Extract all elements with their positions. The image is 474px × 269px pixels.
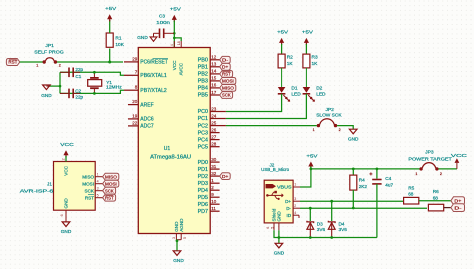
- svg-text:PD0: PD0: [198, 160, 209, 166]
- ground (J1): [61, 222, 72, 234]
- capacitor C4 4u7: [369, 169, 393, 238]
- svg-text:5: 5: [183, 237, 187, 239]
- wire D2 to PC1: [226, 94, 307, 119]
- svg-text:VCC: VCC: [60, 142, 74, 148]
- svg-text:3V6: 3V6: [339, 227, 348, 232]
- svg-text:1: 1: [36, 63, 38, 67]
- power VCC (J1): [60, 142, 74, 162]
- svg-text:R5: R5: [408, 185, 414, 190]
- svg-text:6: 6: [266, 227, 270, 229]
- svg-text:D4: D4: [339, 221, 345, 226]
- pin 10 PD6 (U1 right): [198, 199, 220, 208]
- svg-text:MISO: MISO: [222, 86, 234, 91]
- junction C3/+5V: [173, 32, 176, 35]
- pin 19 ADC6 (U1 left): [128, 113, 154, 122]
- junction Y1 top: [93, 71, 96, 74]
- svg-text:JP3: JP3: [425, 150, 434, 156]
- svg-text:R3: R3: [312, 55, 318, 61]
- svg-text:2: 2: [339, 128, 341, 132]
- pin 24 PC1 (U1 right): [198, 113, 226, 122]
- svg-text:GND: GND: [276, 211, 281, 222]
- wire PC2 to JP2: [226, 125, 317, 127]
- pin 7 PB6/XTAL1 (U1 left): [124, 70, 167, 79]
- svg-text:PB2: PB2: [198, 72, 209, 78]
- svg-text:AVCC: AVCC: [179, 62, 184, 75]
- svg-text:5: 5: [270, 227, 274, 229]
- svg-text:GND: GND: [173, 258, 184, 263]
- ground (JP2): [348, 129, 359, 141]
- svg-text:22p: 22p: [75, 67, 83, 72]
- svg-text:R2: R2: [287, 55, 293, 61]
- svg-text:10K: 10K: [115, 42, 124, 48]
- pin 2 D- (J2): [286, 204, 300, 211]
- ground (C3): [137, 33, 157, 41]
- resistor R4 2K2: [350, 169, 368, 208]
- svg-text:AREF: AREF: [140, 102, 153, 108]
- svg-text:15: 15: [211, 76, 217, 81]
- pin 14 PB2 (U1 right): [198, 69, 220, 78]
- junction D3 top: [309, 207, 312, 210]
- svg-text:SELF PROG: SELF PROG: [34, 50, 64, 56]
- svg-text:D+: D+: [222, 64, 229, 69]
- svg-text:C3: C3: [159, 14, 165, 19]
- svg-text:1K: 1K: [287, 61, 294, 67]
- pin 5 RST (J1): [85, 193, 103, 200]
- svg-text:PC3: PC3: [198, 130, 209, 136]
- capacitor C3: [154, 14, 175, 38]
- svg-text:GND: GND: [61, 229, 72, 234]
- svg-text:VCC: VCC: [172, 60, 177, 70]
- svg-text:PD1: PD1: [198, 167, 209, 173]
- svg-text:R1: R1: [115, 36, 121, 42]
- pin 23 PC0 (U1 right): [198, 106, 226, 115]
- junction U1 ground: [176, 239, 179, 242]
- svg-text:AVR-ISP-6: AVR-ISP-6: [20, 188, 54, 193]
- svg-text:26: 26: [211, 127, 217, 132]
- resistor R1: [106, 33, 125, 48]
- wire JP2 to ground: [337, 126, 353, 130]
- svg-text:GND: GND: [348, 137, 359, 142]
- pin 4 ID (J2): [287, 211, 299, 218]
- ground (J2): [274, 243, 285, 255]
- label MOSI (J1): [103, 180, 119, 187]
- svg-text:PB1: PB1: [198, 65, 209, 71]
- svg-text:1: 1: [415, 172, 417, 176]
- label D- (at PB0): [220, 56, 231, 63]
- svg-text:17: 17: [211, 90, 217, 95]
- resistor R3 1K: [303, 54, 318, 68]
- svg-text:MISO: MISO: [105, 174, 117, 179]
- junction reset/R1: [108, 61, 111, 64]
- svg-text:PD7: PD7: [198, 209, 209, 215]
- label D+ (right): [451, 197, 465, 205]
- pin 8 PB7/XTAL2 (U1 left): [124, 85, 167, 94]
- svg-text:4u7: 4u7: [385, 183, 393, 188]
- junction C1-C2-GND: [59, 85, 62, 88]
- svg-text:27: 27: [211, 134, 217, 139]
- svg-text:PC4: PC4: [198, 137, 209, 143]
- svg-text:ATmega8-16AU: ATmega8-16AU: [150, 155, 191, 161]
- svg-text:12: 12: [211, 55, 217, 60]
- svg-text:R4: R4: [359, 177, 365, 182]
- svg-text:VBUS: VBUS: [277, 185, 292, 190]
- svg-text:1: 1: [313, 128, 315, 132]
- pin 1 MISO (J1): [82, 172, 102, 179]
- pin 6 Shield (J2 bottom): [266, 208, 277, 230]
- label MOSI (at PB3): [220, 78, 236, 85]
- svg-text:2K2: 2K2: [359, 184, 368, 189]
- svg-text:5: 5: [97, 193, 99, 197]
- label D- (right): [451, 204, 465, 212]
- svg-text:RST: RST: [85, 195, 94, 200]
- svg-text:GND: GND: [274, 251, 285, 256]
- pin 13 PB1 (U1 right): [198, 62, 220, 71]
- op-amp U1 body: [138, 48, 210, 234]
- svg-text:20: 20: [132, 99, 138, 104]
- svg-text:11: 11: [211, 206, 216, 211]
- jumper JP2: [313, 107, 343, 132]
- pin 4 VCC (U1 top): [170, 41, 177, 70]
- svg-text:PD4: PD4: [198, 188, 209, 194]
- pin 29 PC6/RESET (U1 left): [124, 56, 168, 65]
- junction +5V rail: [310, 168, 313, 171]
- svg-text:3: 3: [97, 186, 99, 190]
- pin 17 PB5 (U1 right): [198, 90, 220, 99]
- svg-text:68: 68: [433, 195, 439, 200]
- svg-text:U1: U1: [164, 146, 171, 152]
- jumper JP3: [408, 150, 452, 176]
- wire R5 to label: [419, 200, 451, 202]
- wire +5V to VCC/AVCC: [174, 21, 181, 48]
- svg-text:SLOW SCK: SLOW SCK: [316, 113, 342, 119]
- pin 4 MOSI (J1): [82, 179, 102, 186]
- wire RESET net: [20, 49, 123, 63]
- junction D4 top: [330, 200, 333, 203]
- wire C1/C2 ground branch: [49, 72, 60, 93]
- LED D1: [278, 68, 301, 102]
- power +5V (R3): [302, 30, 314, 54]
- svg-text:D+: D+: [222, 174, 229, 179]
- svg-text:C2: C2: [75, 88, 81, 93]
- svg-text:3V6: 3V6: [317, 227, 326, 232]
- svg-text:RST: RST: [222, 72, 231, 77]
- svg-text:19: 19: [132, 113, 138, 118]
- svg-text:PB4: PB4: [198, 86, 209, 92]
- junction D4 bottom: [330, 236, 333, 239]
- svg-text:24: 24: [211, 113, 217, 118]
- svg-text:2: 2: [62, 158, 66, 160]
- svg-text:C1: C1: [75, 74, 81, 79]
- svg-text:12MHz: 12MHz: [106, 85, 123, 90]
- pin 9 PD5 (U1 right): [198, 192, 220, 201]
- svg-text:VCC: VCC: [451, 153, 468, 159]
- pin 11 PD7 (U1 right): [198, 206, 220, 215]
- junction Y1 bottom: [93, 92, 96, 95]
- svg-text:PB5: PB5: [198, 93, 209, 99]
- jumper JP1: [34, 43, 64, 67]
- svg-text:AGND: AGND: [179, 218, 184, 232]
- capacitor C2: [60, 88, 84, 99]
- svg-text:C4: C4: [385, 176, 391, 181]
- svg-text:+5V: +5V: [302, 30, 314, 36]
- wire D1 to PC0: [226, 94, 282, 112]
- pin 27 PC4 (U1 right): [198, 134, 220, 143]
- power +5V (R2): [277, 30, 289, 54]
- svg-text:LED: LED: [316, 92, 326, 98]
- pin 32 PD2 (U1 right): [198, 171, 220, 180]
- resistor R2 1K: [278, 54, 293, 68]
- svg-text:VCC: VCC: [64, 165, 69, 175]
- label SCK (at PB5): [220, 92, 233, 99]
- label D+ (at PB1): [220, 63, 231, 70]
- pin 25 PC2 (U1 right): [198, 120, 226, 129]
- svg-text:SCK: SCK: [85, 188, 95, 193]
- power +5V (J2/VBUS): [306, 153, 318, 168]
- power +5V (R1): [105, 6, 117, 33]
- label MISO (at PB4): [220, 85, 236, 92]
- pin 5 GND (J2 bottom): [270, 211, 281, 231]
- svg-text:13: 13: [211, 62, 217, 67]
- svg-text:ADC7: ADC7: [140, 124, 154, 130]
- svg-text:100n: 100n: [156, 20, 170, 25]
- svg-text:3: 3: [172, 237, 176, 239]
- junction R4 top: [352, 168, 355, 171]
- svg-text:PC6/RESET: PC6/RESET: [140, 60, 168, 66]
- label RST (at PB2): [220, 71, 233, 78]
- svg-text:GND: GND: [64, 198, 69, 209]
- capacitor C1: [60, 67, 84, 79]
- svg-text:R6: R6: [433, 189, 439, 194]
- power +5V (U1): [170, 7, 182, 22]
- svg-text:D-: D-: [222, 57, 229, 62]
- svg-text:+5V: +5V: [306, 153, 318, 159]
- connector J1 AVR-ISP-6 body: [20, 162, 95, 211]
- svg-text:22: 22: [132, 120, 138, 125]
- svg-text:10: 10: [211, 199, 217, 204]
- svg-text:2: 2: [59, 63, 61, 67]
- svg-text:PB6/XTAL1: PB6/XTAL1: [140, 73, 167, 79]
- svg-text:29: 29: [132, 56, 138, 61]
- svg-text:SCK: SCK: [222, 93, 231, 98]
- svg-text:GND: GND: [137, 35, 148, 40]
- svg-text:SCK: SCK: [105, 188, 114, 193]
- wire +5V rail: [300, 167, 420, 188]
- label RST: [6, 59, 19, 66]
- pin 20 AREF (U1 left): [128, 99, 154, 108]
- svg-text:D2: D2: [316, 86, 322, 92]
- pin 5 AGND (U1 bottom): [176, 218, 187, 240]
- svg-text:30: 30: [211, 157, 217, 162]
- junction AVCC branch: [173, 37, 176, 40]
- svg-text:PD3: PD3: [198, 181, 209, 187]
- pin 2 VCC (J1 top): [62, 158, 69, 175]
- zener D4 3V6: [328, 201, 347, 237]
- svg-text:28: 28: [211, 142, 217, 147]
- resistor R6 68: [428, 189, 443, 211]
- LED D2: [303, 68, 326, 102]
- crystal Y1: [88, 72, 123, 93]
- svg-text:2: 2: [294, 204, 296, 208]
- pin 2 PD4 (U1 right): [198, 185, 220, 194]
- wire XTAL2 net: [60, 90, 124, 93]
- svg-text:POWER TARGET: POWER TARGET: [408, 156, 452, 162]
- pin 12 PB0 (U1 right): [198, 55, 220, 64]
- svg-text:68: 68: [408, 191, 414, 196]
- svg-text:D+: D+: [454, 198, 462, 203]
- pin 6 GND (J1 bottom): [60, 198, 68, 222]
- svg-text:MOSI: MOSI: [105, 181, 117, 186]
- svg-text:MOSI: MOSI: [82, 181, 94, 186]
- svg-text:+5V: +5V: [170, 7, 182, 13]
- label D+ (at PD2): [220, 173, 231, 180]
- svg-text:JP2: JP2: [325, 107, 334, 113]
- svg-text:4: 4: [97, 179, 99, 183]
- svg-text:D3: D3: [317, 221, 323, 226]
- svg-text:25: 25: [211, 120, 217, 125]
- svg-text:MOSI: MOSI: [222, 79, 234, 84]
- svg-text:GND: GND: [41, 93, 52, 98]
- wire J2 ground rail: [274, 230, 377, 243]
- pin 18 AVCC (U1 top): [177, 41, 184, 75]
- pin 3 D+ (J2): [285, 197, 300, 204]
- wire U1 ground: [176, 240, 178, 251]
- power VCC (JP3): [451, 153, 468, 169]
- label MISO (J1): [103, 173, 119, 180]
- wire XTAL1 net: [60, 72, 124, 75]
- pin 1 PD3 (U1 right): [198, 178, 220, 187]
- wire JP3 to VCC: [439, 168, 457, 170]
- pin 16 PB4 (U1 right): [198, 83, 220, 92]
- ground (U1): [173, 251, 184, 263]
- svg-text:23: 23: [211, 106, 217, 111]
- svg-text:16: 16: [211, 83, 217, 88]
- junction C4 top: [376, 168, 379, 171]
- connector J2 USB_B_Micro body: [261, 162, 293, 223]
- pin 15 PB3 (U1 right): [198, 76, 220, 85]
- junction J2 gnd: [278, 236, 281, 239]
- svg-text:RST: RST: [8, 60, 17, 65]
- pin 31 PD1 (U1 right): [198, 164, 220, 173]
- svg-text:JP1: JP1: [45, 43, 54, 49]
- pin 3 SCK (J1): [85, 186, 103, 193]
- svg-text:22p: 22p: [75, 94, 83, 99]
- junction D3 bottom: [309, 236, 312, 239]
- svg-text:J1: J1: [47, 182, 52, 187]
- zener D3 3V6: [307, 208, 326, 237]
- svg-text:18: 18: [177, 41, 181, 45]
- svg-text:ID: ID: [287, 213, 292, 218]
- svg-text:1K: 1K: [312, 61, 319, 67]
- svg-text:14: 14: [211, 69, 217, 74]
- wire D- net: [300, 207, 427, 209]
- label RST (J1): [103, 194, 116, 201]
- svg-text:PD6: PD6: [198, 202, 209, 208]
- svg-text:31: 31: [211, 164, 217, 169]
- pin 26 PC3 (U1 right): [198, 127, 220, 136]
- svg-text:PB7/XTAL2: PB7/XTAL2: [140, 88, 167, 94]
- junction R4 bottom: [352, 207, 355, 210]
- svg-text:PB3: PB3: [198, 79, 209, 85]
- svg-text:ADC6: ADC6: [140, 117, 154, 123]
- svg-text:PC2: PC2: [198, 123, 209, 129]
- svg-text:D-: D-: [286, 206, 291, 211]
- svg-text:3: 3: [294, 197, 296, 201]
- svg-text:PD2: PD2: [198, 174, 209, 180]
- resistor R5 68: [404, 185, 419, 204]
- wire R6 to label: [444, 207, 451, 209]
- pin 3 GND (U1 bottom): [172, 221, 179, 240]
- svg-text:PC5: PC5: [198, 144, 209, 150]
- svg-text:D1: D1: [291, 86, 297, 92]
- svg-text:6: 6: [60, 214, 64, 216]
- pin 28 PC5 (U1 right): [198, 142, 220, 151]
- svg-text:USB_B_Micro: USB_B_Micro: [261, 167, 289, 172]
- svg-text:D-: D-: [454, 205, 462, 210]
- svg-text:4: 4: [170, 44, 174, 46]
- svg-text:D+: D+: [285, 199, 291, 204]
- pin 1 VBUS (J2): [277, 183, 300, 190]
- svg-text:2: 2: [440, 172, 442, 176]
- svg-text:1: 1: [294, 183, 296, 187]
- svg-text:+5V: +5V: [105, 6, 117, 12]
- ground (crystal): [41, 85, 52, 98]
- svg-text:+5V: +5V: [277, 30, 289, 36]
- svg-text:PD5: PD5: [198, 195, 209, 201]
- wire D+ net: [300, 200, 404, 202]
- USB icon (J2): [266, 184, 284, 200]
- svg-text:LED: LED: [291, 92, 301, 98]
- svg-text:MISO: MISO: [82, 174, 94, 179]
- pin 30 PD0 (U1 right): [198, 157, 220, 166]
- pin 22 ADC7 (U1 left): [128, 120, 154, 129]
- label SCK (J1): [103, 187, 116, 194]
- svg-text:32: 32: [211, 171, 217, 176]
- svg-text:1: 1: [97, 172, 99, 176]
- svg-text:RST: RST: [105, 195, 114, 200]
- svg-text:PB0: PB0: [198, 58, 209, 64]
- svg-text:PC0: PC0: [198, 109, 209, 115]
- svg-text:4: 4: [294, 211, 296, 215]
- svg-text:PC1: PC1: [198, 116, 209, 122]
